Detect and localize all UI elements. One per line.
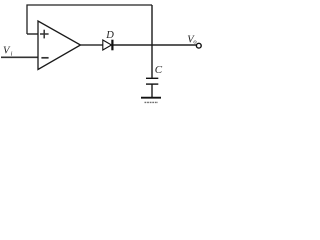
svg-text:i: i <box>11 51 13 58</box>
svg-text:D: D <box>105 30 114 41</box>
svg-text:C: C <box>155 64 163 76</box>
